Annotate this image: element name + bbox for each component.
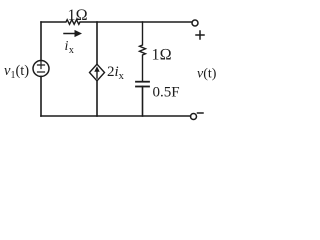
svg-text:v(t): v(t) <box>197 67 217 82</box>
svg-text:2ix: 2ix <box>107 64 125 82</box>
svg-text:v1(t): v1(t) <box>4 63 29 81</box>
svg-text:ix: ix <box>65 39 74 56</box>
svg-text:1Ω: 1Ω <box>152 47 172 64</box>
svg-text:0.5F: 0.5F <box>153 85 180 101</box>
svg-text:1Ω: 1Ω <box>68 7 88 24</box>
